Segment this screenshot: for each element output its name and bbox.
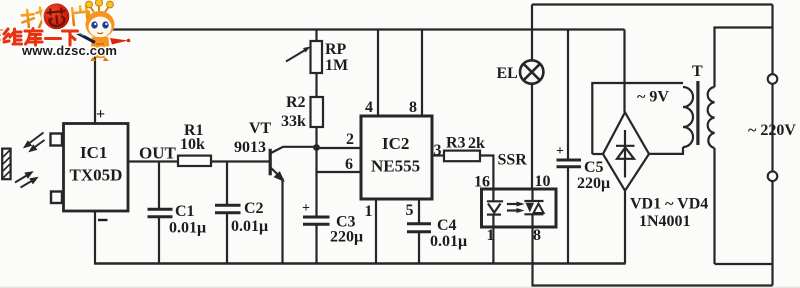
svg-text:C1: C1 xyxy=(175,203,195,220)
svg-text:0.01μ: 0.01μ xyxy=(430,233,467,250)
svg-text:4: 4 xyxy=(365,99,373,116)
svg-text:SSR: SSR xyxy=(498,152,528,169)
svg-text:T: T xyxy=(692,63,703,80)
svg-text:220μ: 220μ xyxy=(577,175,610,192)
svg-text:VD1 ~ VD4: VD1 ~ VD4 xyxy=(630,196,708,213)
svg-text:16: 16 xyxy=(474,174,490,191)
svg-text:+: + xyxy=(302,201,310,216)
svg-text:3: 3 xyxy=(434,142,442,159)
svg-text:IC2: IC2 xyxy=(382,134,409,153)
svg-text:R2: R2 xyxy=(286,94,306,111)
svg-text:www.dzsc.com: www.dzsc.com xyxy=(21,43,117,58)
svg-text:220μ: 220μ xyxy=(330,229,363,246)
svg-text:8: 8 xyxy=(533,227,541,244)
svg-text:~ 220V: ~ 220V xyxy=(748,122,796,139)
svg-text:R3: R3 xyxy=(446,135,466,152)
svg-text:OUT: OUT xyxy=(139,144,177,163)
svg-text:+: + xyxy=(556,144,564,159)
svg-text:IC1: IC1 xyxy=(80,143,107,162)
svg-text:~ 9V: ~ 9V xyxy=(637,89,669,106)
svg-text:+: + xyxy=(96,106,105,123)
svg-text:RP: RP xyxy=(325,41,347,58)
svg-text:5: 5 xyxy=(406,202,414,219)
svg-text:0.01μ: 0.01μ xyxy=(231,218,268,235)
svg-text:1M: 1M xyxy=(325,57,348,74)
svg-text:8: 8 xyxy=(409,99,417,116)
svg-text:33k: 33k xyxy=(281,113,306,130)
svg-text:NE555: NE555 xyxy=(371,157,420,176)
svg-text:VT: VT xyxy=(249,120,272,137)
svg-text:6: 6 xyxy=(345,156,353,173)
svg-text:C5: C5 xyxy=(584,159,604,176)
svg-text:9013: 9013 xyxy=(234,139,266,156)
svg-text:0.01μ: 0.01μ xyxy=(169,220,206,237)
svg-text:1: 1 xyxy=(365,203,373,220)
svg-text:2k: 2k xyxy=(468,135,485,152)
svg-text:C4: C4 xyxy=(437,217,457,234)
svg-text:10: 10 xyxy=(535,173,551,190)
svg-text:1: 1 xyxy=(487,227,495,244)
svg-text:C2: C2 xyxy=(244,200,264,217)
svg-text:EL: EL xyxy=(497,65,518,82)
svg-text:2: 2 xyxy=(346,131,354,148)
svg-text:10k: 10k xyxy=(180,136,205,153)
svg-text:TX05D: TX05D xyxy=(70,166,123,185)
svg-text:1N4001: 1N4001 xyxy=(639,213,691,230)
